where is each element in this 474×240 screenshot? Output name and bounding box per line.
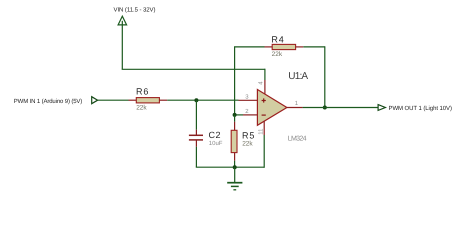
ground symbol [227,183,242,190]
pin 2 lead (inverting input) [243,114,257,116]
pin 3 lead (non-inverting input) [239,99,258,101]
wire R6 to op-amp input [167,99,238,101]
wire feedback branch vertical (R4 left to inverting node) [234,47,236,115]
wire C2 bottom drop [195,147,197,168]
resistor R6 lead left [129,99,137,101]
svg-text:22k: 22k [136,105,147,112]
svg-text:10uF: 10uF [209,140,223,147]
svg-text:R5: R5 [242,131,254,141]
junction dot node at C2 top [194,98,198,102]
svg-text:U1:A: U1:A [288,71,308,82]
junction dot output node [323,106,327,110]
wire inverting node horizontal [235,114,243,116]
resistor R5 lead bottom [234,153,236,161]
wire VIN rail horizontal [122,68,265,70]
wire VIN vertical [121,21,123,70]
pin 11 lead (V-) [263,121,265,135]
svg-text:PWM IN 1 (Arduino 9) (5V): PWM IN 1 (Arduino 9) (5V) [14,98,83,105]
output pointer (PWM OUT flag) [378,105,385,111]
wire R4 top left segment [234,46,265,48]
wire C2 top drop [195,100,197,130]
wire R5 top from inverting node [234,115,236,122]
svg-text:11: 11 [257,128,264,135]
wire input to R6 [98,99,129,101]
svg-text:R6: R6 [136,87,148,97]
wire op-amp output to pointer [303,107,379,109]
svg-text:R4: R4 [271,34,283,44]
op-amp U1:A body [257,90,287,126]
svg-text:LM324: LM324 [288,135,307,142]
wire R4 right segment [303,46,325,48]
pin 1 lead (output) [287,107,303,109]
junction dot ground node [233,165,237,169]
input pointer (PWM IN flag) [92,97,98,104]
wire ground stub [234,167,236,183]
svg-text:VIN (11.5 - 32V): VIN (11.5 - 32V) [114,7,156,14]
svg-text:22k: 22k [272,51,283,58]
capacitor C2 lead bottom [195,140,197,147]
resistor R4 lead right [296,46,304,48]
resistor R5 lead top [234,122,236,131]
wire VIN rail drop to pin 4 [264,69,266,80]
junction dot inverting node [233,113,237,117]
svg-text:PWM OUT 1 (Light 10V): PWM OUT 1 (Light 10V) [389,105,453,112]
wire C2 to ground node [196,166,235,168]
wire ground rail to pin 11 [235,166,265,168]
svg-text:C2: C2 [209,130,221,140]
wire R5 bottom to ground node [234,161,236,168]
pin 4 lead of op-amp [264,80,266,95]
wire pin 11 drop [263,135,265,168]
svg-text:22k: 22k [242,141,253,148]
wire output branch vertical [324,46,326,107]
supply symbol VIN arrow [118,16,127,25]
resistor R5 body [231,130,237,152]
capacitor C2 plates [189,135,203,140]
op-amp plus marking [262,98,266,102]
resistor R4 lead left [265,46,273,48]
resistor R6 lead right [159,99,167,101]
op-amp minus marking [262,114,266,116]
resistor R4 body [272,44,295,49]
capacitor C2 lead top [195,130,197,135]
resistor R6 body [136,98,159,103]
